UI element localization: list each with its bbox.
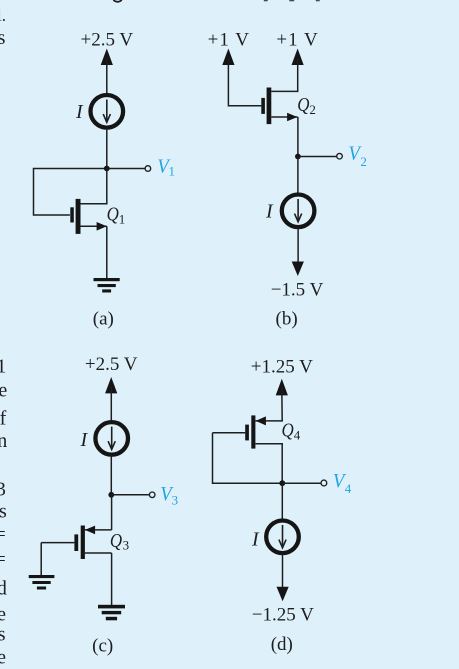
supply arrow left (b) (222, 49, 234, 66)
wire node to current source (b) (297, 157, 299, 193)
svg-text:I: I (251, 528, 260, 550)
supply arrow (a) (101, 49, 113, 66)
bottom rail arrow (d) (277, 587, 289, 602)
svg-text:+2.5 V: +2.5 V (81, 29, 134, 50)
svg-text:(b): (b) (276, 309, 298, 330)
feedback wire gate-node (d) (213, 433, 283, 483)
svg-text:−1.25 V: −1.25 V (252, 604, 314, 625)
terminal circle V2 (337, 153, 343, 159)
svg-text:s: s (0, 501, 7, 523)
node dot (b) (295, 154, 301, 160)
supply arrow (d) (276, 379, 288, 396)
svg-text:(a): (a) (93, 309, 114, 330)
output wire (c) (111, 494, 149, 496)
svg-text:+1 V: +1 V (276, 29, 318, 50)
svg-text:I: I (80, 429, 89, 451)
transistor Q2 source arrow (287, 113, 297, 122)
svg-text:1: 1 (169, 164, 176, 179)
svg-text:(c): (c) (92, 636, 113, 657)
top edge caption fragment 2 (289, 0, 294, 1)
transistor Q3 gate lead (41, 542, 74, 544)
wire current source to node (c) (110, 455, 112, 495)
svg-text:−1.5 V: −1.5 V (271, 279, 324, 300)
svg-text:+1.25 V: +1.25 V (251, 356, 313, 377)
transistor Q2 channel bar (267, 88, 272, 125)
terminal circle V4 (321, 480, 327, 486)
svg-text:f: f (0, 407, 7, 429)
current source arrow (b) (295, 199, 302, 222)
wire supply to current source (a) (106, 58, 108, 95)
top edge caption fragment 3 (316, 0, 320, 1)
transistor Q4 drain lead (255, 444, 282, 484)
svg-text:Q: Q (110, 530, 123, 552)
svg-text:s: s (0, 623, 6, 645)
transistor Q4 gate lead (213, 432, 246, 434)
output wire (b) (298, 156, 337, 158)
transistor Q4 source arrow (256, 416, 266, 425)
output wire (a) (107, 168, 145, 170)
svg-text:4: 4 (294, 427, 301, 442)
svg-text:3: 3 (123, 538, 130, 553)
transistor Q3 source lead (85, 529, 112, 531)
transistor Q3 gate bar (74, 534, 78, 551)
svg-text:I: I (265, 200, 274, 222)
transistor Q3 drain lead (85, 552, 112, 554)
top edge glyph fragment (descender) (114, 0, 122, 2)
svg-text:2: 2 (360, 154, 367, 169)
wire node to source lead (c) (111, 495, 113, 530)
node dot (d) (279, 480, 285, 486)
svg-text:+1 V: +1 V (208, 29, 250, 50)
svg-text:l.: l. (0, 6, 6, 25)
transistor Q4 channel bar (251, 415, 255, 448)
bottom rail arrow (b) (292, 262, 304, 277)
wire source to node (b) (297, 117, 299, 157)
svg-text:4: 4 (345, 481, 352, 496)
svg-text:Q: Q (297, 94, 310, 116)
svg-text:Q: Q (107, 203, 120, 225)
wire current source to node (a) (106, 128, 108, 169)
svg-text:3: 3 (172, 492, 179, 507)
svg-text:s: s (0, 27, 6, 49)
transistor Q1 channel bar (76, 199, 81, 234)
wire node to current source (d) (281, 483, 283, 518)
wire current source to rail arrow (d) (282, 553, 284, 587)
main ground (c) (98, 605, 125, 621)
svg-text:e: e (0, 380, 7, 402)
wire supply to current source (c) (110, 386, 112, 420)
terminal circle V3 (149, 492, 155, 498)
transistor Q2 source lead (271, 116, 297, 118)
feedback wire node-gate (a) (34, 169, 107, 216)
supply arrow right (b) (292, 49, 304, 66)
node dot (a) (104, 166, 110, 172)
current source arrow (d) (279, 525, 286, 548)
svg-text:1: 1 (119, 212, 126, 227)
wire left supply to gate (b) (228, 58, 261, 106)
svg-text:n: n (0, 430, 7, 452)
current source arrow (c) (108, 427, 115, 450)
transistor Q1 drain lead (81, 169, 107, 204)
current source I circle (d) (266, 521, 299, 554)
current source arrow (a) (103, 100, 110, 123)
wire source to ground (a) (106, 226, 108, 280)
svg-text:2: 2 (309, 102, 316, 117)
svg-text:(d): (d) (271, 634, 293, 655)
svg-text:=: = (0, 523, 6, 545)
svg-text:3: 3 (0, 478, 6, 500)
svg-text:Q: Q (282, 419, 295, 441)
transistor Q3 source arrow (85, 526, 95, 535)
transistor Q3 channel bar (81, 526, 85, 560)
terminal circle V1 (145, 166, 151, 172)
svg-text:I: I (75, 101, 84, 123)
transistor Q4 gate bar (245, 425, 249, 441)
transistor Q1 source arrow (97, 222, 107, 231)
node dot (c) (108, 492, 114, 498)
svg-text:d: d (0, 577, 7, 599)
top edge caption fragment 1 (264, 0, 268, 1)
svg-text:+2.5 V: +2.5 V (85, 354, 138, 375)
transistor Q2 gate bar (261, 98, 265, 114)
left ground (c) (29, 575, 55, 590)
svg-text:1: 1 (0, 355, 6, 377)
svg-text:=: = (0, 549, 6, 571)
ground (a) (94, 278, 120, 293)
transistor Q1 gate bar (70, 207, 74, 222)
output wire (d) (282, 482, 321, 484)
svg-text:e: e (0, 647, 6, 669)
current source I circle (c) (95, 422, 128, 455)
transistor Q1 source lead (81, 225, 107, 227)
current source I circle (b) (282, 195, 315, 228)
current source I circle (a) (91, 95, 124, 128)
wire drain to ground (c) (111, 553, 113, 606)
wire supply to source lead (d) (256, 388, 283, 421)
wire gate to left ground (c) (40, 543, 42, 576)
svg-text:e: e (0, 603, 6, 625)
wire right supply to drain (b) (271, 58, 297, 91)
supply arrow (c) (105, 377, 117, 393)
wire current source to rail arrow (b) (297, 227, 299, 262)
